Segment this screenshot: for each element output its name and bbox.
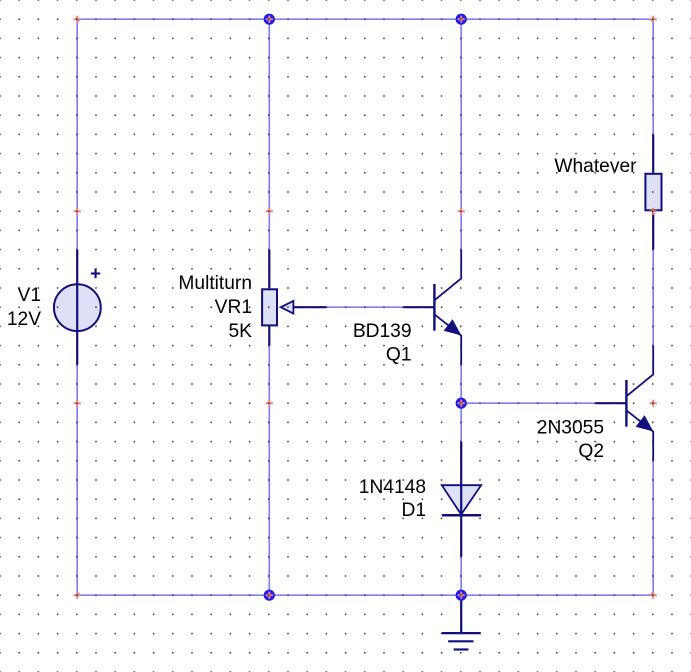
endpoint crosses: [74, 16, 657, 599]
potentiometer VR1: [262, 250, 326, 346]
wire top rail + upper left/right rails: [77, 19, 653, 249]
wire diode to bottom rail: [460, 557, 462, 595]
resistor Whatever: [645, 134, 661, 249]
junction bottom Q1: [456, 590, 467, 601]
junction node A: [456, 398, 467, 409]
wire left rail lower + bottom rail + right rail lower: [77, 365, 653, 595]
wire VR1 wiper to Q1 base: [326, 306, 403, 308]
junction top VR1: [264, 14, 275, 25]
junction top Q1: [456, 14, 467, 25]
diode D1: [442, 442, 481, 557]
wire node A to Q2 base: [461, 402, 595, 404]
transistor Q2: [595, 346, 653, 461]
wire VR1 rail upper: [268, 19, 270, 249]
ground: [442, 595, 481, 649]
wire right rail middle: [652, 250, 654, 346]
wire Q1 emitter to node A: [460, 365, 462, 442]
wire VR1 rail lower: [268, 346, 270, 596]
wire Q1 collector rail upper: [460, 19, 462, 249]
junction bottom VR1: [264, 590, 275, 601]
battery V1: [54, 250, 101, 365]
transistor Q1: [403, 250, 461, 365]
